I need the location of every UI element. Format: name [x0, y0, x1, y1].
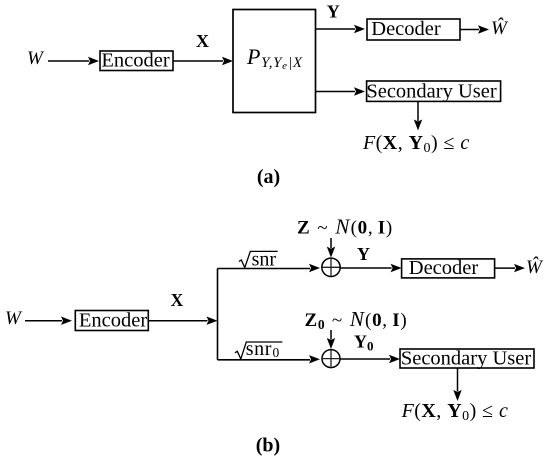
- encoder box (a): [100, 50, 173, 72]
- node label Y0 (b bottom) bold: [354, 332, 374, 354]
- decoder box (b): [402, 257, 495, 279]
- node W (b): message input label: [5, 308, 23, 329]
- wire Z0 into adder (b bottom): [327, 330, 335, 349]
- node W-hat (b): [526, 256, 544, 278]
- wire Decoder to W-hat (a): [460, 25, 489, 33]
- svg-text:Decoder: Decoder: [371, 18, 441, 40]
- wire W to Encoder (b) with arrowhead: [25, 317, 72, 325]
- svg-text:Z~N(0,I): Z~N(0,I): [297, 215, 393, 239]
- wire Encoder to branch point (b), label X: [148, 317, 217, 325]
- noise label Z0 ~ N(0,I) (b bottom): [305, 307, 408, 332]
- svg-text:Decoder: Decoder: [409, 257, 479, 279]
- svg-text:W: W: [27, 48, 45, 69]
- wire Secondary User down to constraint (a): [414, 101, 422, 130]
- wire W to Encoder (a) with arrowhead: [48, 57, 99, 65]
- decoder box (a): [367, 18, 460, 40]
- constraint label F(X,Y0)<=c (b): [401, 400, 509, 424]
- bottom branch wire to adder (b): [218, 355, 321, 363]
- node label Y (a) bold: [327, 2, 340, 22]
- wire adder to Secondary User (b): [340, 355, 400, 363]
- svg-text:Encoder: Encoder: [101, 50, 169, 72]
- caption (b): [256, 435, 280, 457]
- svg-text:snr: snr: [252, 249, 277, 271]
- branch split vertical wire (b): [217, 269, 219, 360]
- svg-text:Ŵ: Ŵ: [526, 256, 544, 278]
- node label X (b) bold: [171, 290, 184, 310]
- adder (bottom) circle-plus (b): [322, 350, 340, 368]
- wire Decoder to W-hat (b): [495, 264, 525, 272]
- svg-text:Y: Y: [327, 2, 340, 22]
- wire channel to Decoder (a), node label Y: [316, 25, 366, 33]
- noise label Z ~ N(0,I) (b top): [297, 215, 393, 239]
- node W (a): message input label: [27, 48, 45, 69]
- wire adder to Decoder (b): [340, 264, 401, 272]
- svg-text:Secondary User: Secondary User: [401, 348, 532, 370]
- node W-hat (a): decoded message: [491, 17, 509, 39]
- top branch wire to adder (b): [218, 264, 321, 272]
- gain label sqrt(snr) (b top): [239, 249, 278, 271]
- gain label sqrt(snr0) (b bottom): [235, 338, 282, 360]
- svg-text:X: X: [171, 290, 184, 310]
- encoder box (b): [75, 310, 148, 332]
- svg-text:(a): (a): [257, 166, 280, 188]
- node label X (a) bold: [196, 31, 209, 51]
- svg-text:F(X, Y0) ≤ c: F(X, Y0) ≤ c: [401, 400, 509, 424]
- svg-text:W: W: [5, 308, 23, 329]
- caption (a): [257, 166, 280, 188]
- secondary user box (b): [400, 348, 534, 370]
- wire Z into adder (b top): [327, 238, 335, 258]
- constraint label F(X,Y0)<=c (a): [362, 132, 470, 156]
- svg-text:Z0~N(0,I): Z0~N(0,I): [305, 307, 408, 332]
- wire Secondary User down to constraint (b): [453, 368, 461, 401]
- svg-text:F(X, Y0) ≤ c: F(X, Y0) ≤ c: [362, 132, 470, 156]
- svg-text:(b): (b): [256, 435, 280, 457]
- wire Encoder to channel box (a), label X: [173, 57, 233, 65]
- svg-text:X: X: [196, 31, 209, 51]
- channel box P_{Y,Y_e|X} (a): [233, 10, 316, 113]
- svg-text:Y: Y: [357, 244, 370, 264]
- svg-text:Y0: Y0: [354, 332, 374, 354]
- svg-text:Ŵ: Ŵ: [491, 17, 509, 39]
- secondary user box (a): [366, 81, 500, 103]
- wire channel to Secondary User (a): [316, 87, 366, 95]
- node label Y (b top) bold: [357, 244, 370, 264]
- adder (top) circle-plus (b): [322, 258, 340, 276]
- svg-text:Encoder: Encoder: [79, 310, 147, 332]
- svg-text:Secondary User: Secondary User: [366, 81, 497, 103]
